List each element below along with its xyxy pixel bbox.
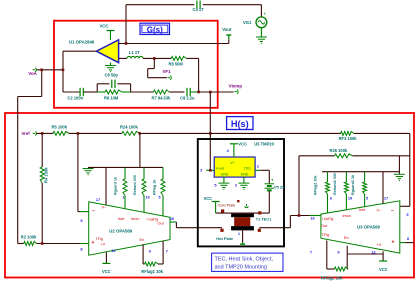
wire TEC to U3 out <box>259 216 309 228</box>
svg-text:U5 TMP20: U5 TMP20 <box>254 142 274 147</box>
pin VF1 <box>163 69 172 80</box>
TMP20 gnd pins <box>214 177 249 190</box>
svg-text:RFlag2 10k: RFlag2 10k <box>321 275 343 280</box>
svg-text:VCC: VCC <box>379 267 388 272</box>
svg-text:Hot Plate: Hot Plate <box>216 236 234 241</box>
H(s) block label <box>227 117 253 130</box>
svg-text:Cold Plate: Cold Plate <box>218 202 236 207</box>
svg-text:T(V): T(V) <box>244 166 251 170</box>
inductor L1 1T <box>119 50 143 58</box>
junction top input <box>125 42 128 45</box>
TMP20 vout lead pin 3 <box>200 167 214 172</box>
junction Vtemp column <box>209 132 212 135</box>
U2 top pin numbers <box>96 195 162 202</box>
svg-text:TEC, Heat Sink, Object,: TEC, Heat Sink, Object, <box>215 257 274 263</box>
resistor RF3 100k <box>339 131 358 141</box>
resistor RFlag1 10k <box>141 241 163 274</box>
ground below U1 <box>105 63 116 73</box>
junction VoA wire <box>62 69 65 72</box>
TMP20 body U5 <box>214 142 274 178</box>
wire U1 top input <box>119 43 229 45</box>
svg-text:RFlag1 10k: RFlag1 10k <box>141 269 163 274</box>
svg-text:C2 100n: C2 100n <box>67 96 83 101</box>
wire RF3 to right column <box>354 133 410 206</box>
svg-text:+V: +V <box>101 243 106 247</box>
TEC label <box>256 216 272 221</box>
svg-text:U3 OPA569: U3 OPA569 <box>357 224 380 229</box>
junction guard tap <box>138 132 141 135</box>
svg-text:Rguard 1k: Rguard 1k <box>114 176 118 195</box>
svg-text:+: + <box>92 240 95 246</box>
wire R24 to RF3 <box>140 132 341 134</box>
pin Vtemp <box>229 84 243 94</box>
svg-text:En: En <box>140 238 145 242</box>
wire R7 to C9 <box>169 91 184 93</box>
svg-text:TFlg: TFlg <box>322 233 329 237</box>
pin Vout <box>222 27 232 44</box>
svg-text:VCC: VCC <box>238 141 247 146</box>
wire U2 inverting column <box>78 133 81 211</box>
svg-text:+V: +V <box>377 243 382 247</box>
VCC below U2 <box>102 248 116 274</box>
svg-text:−: − <box>391 208 394 214</box>
ground at R26 right <box>394 156 405 181</box>
wire battery to cold rail <box>268 191 270 213</box>
TMP20 TV lead pin 1 <box>255 164 260 171</box>
U3 bottom pin numbers <box>310 250 341 255</box>
svg-text:VoA: VoA <box>28 71 37 76</box>
wire VoA node <box>36 69 63 71</box>
svg-text:VCC: VCC <box>102 269 111 274</box>
svg-text:VCC: VCC <box>100 24 109 29</box>
wire VG1 drop <box>260 5 262 17</box>
svg-text:R7 94.53k: R7 94.53k <box>152 96 172 101</box>
svg-text:Rshunt2 330: Rshunt2 330 <box>333 173 337 195</box>
svg-text:V-out: V-out <box>216 166 224 170</box>
svg-text:L1 1T: L1 1T <box>129 50 140 55</box>
resistor Rshunt 330 <box>133 167 146 212</box>
guard rail wire <box>88 166 163 168</box>
svg-text:RF3 100k: RF3 100k <box>339 136 358 141</box>
resistor Rguard2 1k <box>351 172 367 207</box>
U3 inverting lead <box>406 212 409 217</box>
VCC above TMP20 <box>227 141 247 157</box>
svg-text:C8 50p: C8 50p <box>105 73 119 78</box>
resistor R26 100k <box>299 148 410 158</box>
svg-text:Vtemp: Vtemp <box>229 84 243 89</box>
battery V5 <box>265 177 286 190</box>
svg-text:Imon: Imon <box>343 214 351 218</box>
capacitor C2 100n <box>63 88 97 101</box>
svg-text:V+: V+ <box>230 161 235 165</box>
U3 noninverting lead <box>400 236 414 243</box>
resistor RFlag2 10k vertical <box>314 172 330 213</box>
TEC red slab <box>234 217 250 226</box>
op-amp U3 body <box>321 201 400 253</box>
wire R26 down to U3 out node <box>298 156 300 216</box>
capacitor C9 2.2u <box>180 88 199 101</box>
junction vout <box>209 169 212 172</box>
wire Vtemp column down <box>209 92 211 170</box>
svg-text:and TMP20 Mounting: and TMP20 Mounting <box>215 265 268 271</box>
wire TV to battery <box>260 170 269 183</box>
svg-text:TFlg: TFlg <box>96 237 103 241</box>
resistor R24 100k <box>120 124 140 135</box>
svg-text:−: − <box>92 208 95 214</box>
svg-text:I UaFlg: I UaFlg <box>322 217 334 221</box>
VCC at cold rail <box>204 196 220 213</box>
junction R26 at out wire <box>298 214 301 217</box>
svg-text:U2 OPA569: U2 OPA569 <box>109 229 132 234</box>
resistor RFlag 1k <box>153 167 166 216</box>
wire guard-to-R24 column <box>139 133 141 167</box>
svg-text:H(s): H(s) <box>231 119 249 129</box>
svg-text:R5 100k: R5 100k <box>52 124 68 129</box>
svg-text:R6 10M: R6 10M <box>104 96 119 101</box>
svg-text:G(s): G(s) <box>147 25 163 34</box>
svg-text:VF1: VF1 <box>163 69 172 74</box>
TEC pad cold left <box>221 209 224 212</box>
junction R4 tap <box>41 132 44 135</box>
svg-text:Imon: Imon <box>131 217 139 221</box>
capacitor C8 50p <box>97 73 130 88</box>
svg-text:U1 OPA2846: U1 OPA2846 <box>69 40 95 45</box>
TEC pad drive right <box>258 229 261 232</box>
wire R5 to R24 <box>69 132 122 134</box>
wire VoA branch down-left <box>18 70 42 244</box>
resistor RFlag2 10k bottom <box>321 241 348 281</box>
wire C9 to Vtemp node <box>199 91 234 93</box>
junction Vtemp drop <box>209 91 212 94</box>
U3 output lead <box>310 216 321 221</box>
svg-text:R8 50M: R8 50M <box>169 62 184 67</box>
svg-text:T1 TEC1: T1 TEC1 <box>256 216 272 221</box>
Cold Plate pin <box>218 200 249 208</box>
junction R8 bottom <box>197 91 200 94</box>
svg-text:7: 7 <box>166 249 168 254</box>
U2 output lead <box>170 216 177 222</box>
capacitor C4 1T <box>193 1 205 13</box>
svg-text:Vref: Vref <box>21 131 30 136</box>
svg-text:Rguard2 1k: Rguard2 1k <box>351 174 355 195</box>
wire top C4 run <box>126 4 261 6</box>
svg-text:V−: V− <box>377 208 383 212</box>
source VG1 <box>243 11 267 28</box>
U2 input pin leads <box>80 212 88 244</box>
VCC supply above U1 <box>100 24 115 40</box>
Hot Plate pin <box>216 230 245 244</box>
U2 bottom pin numbers <box>149 249 168 254</box>
resistor R6 10M <box>97 90 130 101</box>
resistor R5 100k <box>52 124 69 135</box>
wire R8 right down <box>186 58 198 92</box>
junction U2 inverting tap <box>77 132 80 135</box>
U3 En lead <box>347 246 383 269</box>
resistor R4 100k <box>40 133 48 243</box>
G(s) loop-gain block frame <box>54 21 218 108</box>
svg-text:7: 7 <box>310 250 312 255</box>
TEC pad drive left <box>220 229 223 232</box>
svg-text:GND: GND <box>241 173 249 177</box>
svg-text:I UaFlg: I UaFlg <box>147 218 159 222</box>
op-amp U2 body <box>89 202 170 255</box>
svg-text:RFlag2 10k: RFlag2 10k <box>314 175 318 195</box>
svg-text:17: 17 <box>384 196 388 201</box>
junction VoA branch <box>40 69 43 72</box>
svg-text:R4 100k: R4 100k <box>44 167 49 183</box>
wire L1 to R8 <box>143 57 171 59</box>
wire VF1 stub <box>148 58 167 77</box>
svg-text:VCC: VCC <box>204 196 213 201</box>
resistor R7 94.53k <box>152 90 172 101</box>
junction R4 bottom <box>41 242 44 245</box>
op-amp U1 triangle <box>96 40 118 63</box>
wire Vref to R5 <box>36 132 53 134</box>
op-amp U1 label <box>69 40 95 45</box>
U3 guard rail wire <box>322 171 399 173</box>
svg-text:V−: V− <box>102 205 108 209</box>
svg-text:GND: GND <box>221 173 229 177</box>
U2 pin texts <box>92 205 165 246</box>
svg-text:R26 100k: R26 100k <box>330 148 348 153</box>
resistor R2 100k <box>18 235 81 246</box>
resistor R8 50M <box>169 56 187 66</box>
wire to R7 <box>131 91 154 93</box>
U2 En lead <box>142 244 144 264</box>
G(s) block label <box>140 23 170 34</box>
pin VoA <box>28 68 37 76</box>
svg-text:1: 1 <box>238 232 240 236</box>
VCC below U3 <box>371 250 387 273</box>
svg-text:Out: Out <box>321 224 328 228</box>
svg-text:+: + <box>392 240 395 246</box>
wire U2 out to TEC <box>176 222 222 228</box>
U3 pin texts <box>321 208 395 247</box>
svg-text:En: En <box>344 236 349 240</box>
wire U1 output left <box>63 51 96 92</box>
parallel block frame R6 C8 <box>97 84 130 92</box>
svg-text:V5 25: V5 25 <box>274 185 285 190</box>
svg-text:C4 1T: C4 1T <box>193 7 205 12</box>
ground below VG1 <box>256 28 267 44</box>
resistor Rguard 1k <box>114 167 128 208</box>
resistor Rshunt2 330 <box>333 172 349 210</box>
U3 top pin numbers <box>330 196 388 201</box>
svg-text:Iset: Iset <box>359 208 366 212</box>
svg-text:Iset: Iset <box>118 217 125 221</box>
cold rail wire <box>216 212 270 214</box>
svg-text:R2 100k: R2 100k <box>21 235 37 240</box>
pin Vref <box>21 131 36 136</box>
TEC bottom black bar <box>231 226 254 230</box>
enclosure box <box>198 139 284 246</box>
svg-text:R24 100k: R24 100k <box>120 124 138 129</box>
ground for guard rail <box>83 169 94 176</box>
svg-text:C9 2.2u: C9 2.2u <box>180 96 195 101</box>
svg-text:17: 17 <box>96 197 100 202</box>
svg-text:VG1: VG1 <box>243 20 252 25</box>
svg-text:RFlag 1k: RFlag 1k <box>153 179 157 195</box>
svg-text:Vout: Vout <box>222 27 232 32</box>
junction VF1 tap <box>153 57 156 60</box>
H(s) plant block frame <box>5 113 414 278</box>
wire up to C4 loop <box>125 5 127 44</box>
TEC pad cold right <box>258 211 261 214</box>
wire pin17 column <box>105 167 107 205</box>
svg-text:Out: Out <box>158 222 165 226</box>
TEC T1 top black bar <box>231 214 254 218</box>
caption text box <box>212 253 283 271</box>
U2 pin numbers left <box>80 218 83 252</box>
svg-text:Rshunt 330: Rshunt 330 <box>133 175 137 195</box>
wire U3 pin17 column <box>382 172 384 204</box>
